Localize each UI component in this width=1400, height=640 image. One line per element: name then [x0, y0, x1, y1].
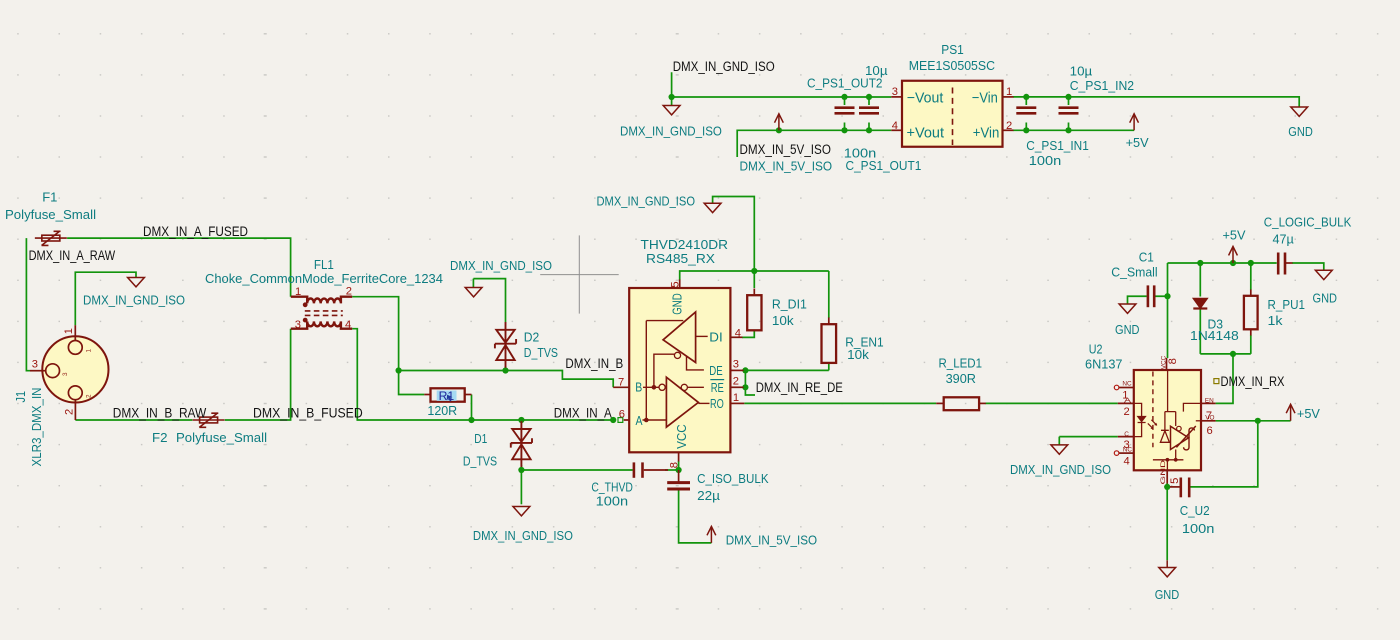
svg-text:3: 3: [892, 86, 898, 98]
svg-text:GND: GND: [1313, 290, 1338, 305]
IC U2 6N137 body: [1134, 370, 1201, 470]
svg-text:Polyfuse_Small: Polyfuse_Small: [176, 430, 267, 445]
svg-text:R_DI1: R_DI1: [772, 296, 807, 311]
RO line: [698, 402, 709, 404]
ground DMX_IN_GND_ISO (near D2): [465, 288, 482, 297]
power symbol +5V (U2 VO): [1286, 404, 1295, 421]
polyfuse F2: [193, 413, 225, 427]
diode D1 D_TVS: [511, 421, 532, 467]
svg-text:NC: NC: [1123, 447, 1133, 454]
capacitor C_U2: [1181, 478, 1189, 498]
svg-text:DMX_IN_GND_ISO: DMX_IN_GND_ISO: [673, 59, 775, 74]
LED input diode: [1134, 403, 1142, 416]
B input line and bubble: [643, 386, 659, 388]
svg-text:C_Small: C_Small: [1111, 264, 1157, 279]
wire D1 junction down to GND_ISO: [520, 470, 522, 504]
svg-text:GND: GND: [1115, 322, 1140, 337]
svg-text:NC: NC: [1122, 380, 1132, 387]
THVD pin stubs: [613, 280, 744, 462]
EN internal: [1183, 403, 1201, 411]
svg-text:4: 4: [1124, 455, 1130, 467]
svg-text:XLR3_DMX_IN: XLR3_DMX_IN: [29, 388, 44, 467]
svg-text:DI: DI: [709, 329, 722, 344]
svg-text:DMX_IN_RE_DE: DMX_IN_RE_DE: [756, 380, 843, 395]
wire D3 vertical: [1199, 263, 1201, 354]
ground DMX_IN_GND_ISO (PS1 left junction): [663, 106, 680, 115]
svg-text:J1: J1: [13, 391, 28, 403]
ground DMX_IN_GND_ISO (below D1): [513, 507, 530, 516]
dangling label square DMX_IN_RX: [1214, 379, 1219, 384]
resistor R_EN1: [828, 318, 830, 325]
svg-text:1: 1: [295, 286, 301, 298]
wire junction to R1 left: [399, 371, 425, 395]
power symbol DMX_IN_5V_ISO (bottom): [707, 526, 716, 543]
svg-text:DMX_IN_B: DMX_IN_B: [565, 356, 623, 371]
wire C_U2 left junction: [1166, 483, 1168, 487]
svg-text:DMX_IN_B_FUSED: DMX_IN_B_FUSED: [253, 405, 363, 420]
IC U1 THVD2410DR body: [629, 288, 730, 452]
svg-text:DMX_IN_A: DMX_IN_A: [554, 406, 612, 421]
svg-text:2: 2: [64, 409, 76, 415]
internal VCC rail: [1165, 370, 1176, 426]
svg-text:6: 6: [1207, 425, 1213, 437]
wire PS1 bottom left rail: [737, 130, 891, 157]
svg-text:6N137: 6N137: [1085, 357, 1123, 372]
svg-text:1N4148: 1N4148: [1190, 328, 1239, 343]
A input line: [643, 419, 667, 421]
svg-text:1: 1: [86, 349, 93, 353]
svg-text:22µ: 22µ: [697, 488, 720, 503]
output buffer triangle: [1171, 426, 1189, 449]
svg-text:3: 3: [32, 359, 38, 371]
capacitor C_PS1_IN1 / C_PS1_IN2: [1016, 108, 1036, 114]
wire DMX_IN_B_FUSED F2 to choke pin3: [225, 329, 291, 420]
power symbol +5V (PS1 right): [1130, 114, 1139, 131]
svg-text:2: 2: [1006, 120, 1012, 132]
wire PS1 right top rail to GND: [1013, 97, 1299, 107]
wire D3 R_PU1 bottom rail: [1200, 353, 1251, 355]
svg-text:8: 8: [668, 462, 680, 468]
svg-text:C_PS1_OUT2: C_PS1_OUT2: [807, 76, 883, 91]
wire DMX_IN_A_FUSED F1 to choke pin1: [67, 238, 291, 297]
svg-text:Choke_CommonMode_FerriteCore_1: Choke_CommonMode_FerriteCore_1234: [205, 271, 443, 286]
bottom internal rail: [1153, 450, 1184, 471]
ground DMX_IN_GND_ISO (top center): [704, 203, 721, 212]
wire DMX_IN_B horizontal to THVD pin7: [399, 371, 614, 388]
svg-text:390R: 390R: [946, 371, 976, 386]
svg-text:4: 4: [892, 120, 898, 132]
ground GND (C_LOGIC_BULK): [1315, 270, 1332, 279]
capacitor C_ISO_BULK: [667, 470, 690, 489]
svg-text:47µ: 47µ: [1273, 232, 1295, 247]
wire THVD pin5 to GND net: [680, 271, 829, 280]
resistor R_DI1: [753, 289, 755, 296]
driver output lines: [646, 321, 683, 420]
wire VO junction down to C_U2: [1191, 421, 1258, 487]
svg-text:RO: RO: [710, 396, 724, 411]
svg-text:R_LED1: R_LED1: [939, 356, 983, 371]
svg-text:+Vin: +Vin: [973, 126, 1000, 142]
svg-text:C_PS1_IN2: C_PS1_IN2: [1070, 78, 1134, 93]
wire GND arrow top center: [713, 197, 755, 272]
wire U2 pin3 to GND_ISO: [1059, 437, 1118, 445]
svg-text:+5V: +5V: [1223, 227, 1246, 242]
wire PS1 right bottom rail to +5V: [1013, 129, 1134, 131]
DI line: [696, 335, 708, 337]
driver triangle: [663, 312, 696, 363]
ground DMX_IN_GND_ISO (U2 pin3): [1051, 445, 1068, 454]
DE line: [687, 356, 704, 370]
svg-text:R1: R1: [439, 389, 455, 403]
svg-text:3: 3: [62, 372, 69, 376]
svg-text:FL1: FL1: [314, 257, 334, 272]
capacitor C_LOGIC_BULK: [1278, 253, 1292, 275]
wire C_ISO_BULK bottom to 5V_ISO arrow: [679, 490, 712, 543]
svg-text:4: 4: [735, 327, 741, 339]
svg-text:+5V: +5V: [1126, 135, 1149, 150]
resistor R_LED1: [936, 402, 944, 404]
svg-text:−Vin: −Vin: [972, 91, 998, 107]
svg-text:U2: U2: [1089, 342, 1103, 357]
wire +5V top rail U2: [1168, 262, 1277, 264]
svg-text:7: 7: [618, 377, 624, 389]
polyfuse F1: [35, 231, 67, 245]
svg-text:A: A: [1124, 398, 1132, 405]
schmitt glyph: [1184, 428, 1195, 450]
svg-text:PS1: PS1: [941, 42, 964, 57]
svg-text:DE: DE: [709, 363, 723, 378]
svg-text:A: A: [636, 413, 643, 428]
wire PS1 top left rail: [672, 72, 892, 105]
svg-text:GND: GND: [670, 293, 685, 315]
no-connect circle pin1: [1114, 385, 1119, 390]
wire R_LED1 to U2 pin2: [985, 402, 1117, 404]
wire R_DI1 top: [753, 271, 755, 288]
diode D2 D_TVS: [495, 322, 516, 368]
wire RE_DE label stub: [745, 370, 755, 395]
svg-text:3: 3: [295, 319, 301, 331]
power symbol +5V (U2 rail): [1229, 247, 1238, 264]
svg-text:DMX_IN_B_RAW: DMX_IN_B_RAW: [113, 405, 207, 420]
svg-text:+Vout: +Vout: [907, 126, 945, 142]
wire R_PU1 vertical: [1250, 263, 1252, 354]
svg-text:DMX_IN_GND_ISO: DMX_IN_GND_ISO: [473, 528, 573, 543]
wire U2 pin5 to GND: [1166, 487, 1168, 560]
svg-text:DMX_IN_A_RAW: DMX_IN_A_RAW: [29, 248, 116, 263]
svg-text:1: 1: [1006, 86, 1012, 98]
wire R_EN1 top: [828, 271, 830, 318]
svg-text:10k: 10k: [847, 347, 869, 362]
svg-text:6: 6: [619, 409, 625, 421]
svg-text:DMX_IN_GND_ISO: DMX_IN_GND_ISO: [620, 124, 722, 139]
svg-text:4: 4: [345, 319, 351, 331]
svg-text:F1: F1: [42, 189, 57, 204]
svg-text:F2: F2: [152, 430, 168, 445]
no-connect circle pin4: [1114, 451, 1119, 456]
svg-text:C_U2: C_U2: [1180, 503, 1210, 518]
svg-text:C_LOGIC_BULK: C_LOGIC_BULK: [1264, 214, 1352, 229]
connector J1 XLR3_DMX_IN: [30, 325, 109, 420]
unconnected end square (pin A): [618, 418, 623, 423]
svg-text:C_PS1_OUT1: C_PS1_OUT1: [846, 158, 922, 173]
diode D3 1N4148: [1193, 299, 1207, 309]
svg-text:100n: 100n: [596, 494, 629, 509]
crosshair cursor: [540, 235, 619, 313]
U2 pin stubs: [1118, 358, 1216, 484]
wire C_THVD right to pin8 junction: [665, 469, 679, 471]
wire DMX_IN_A_RAW left vertical F1 to XLR pin3: [26, 238, 30, 371]
svg-text:D2: D2: [524, 330, 540, 345]
open collector diagonal: [1176, 426, 1195, 447]
wire D1 stubs: [520, 420, 522, 470]
svg-text:DMX_IN_5V_ISO: DMX_IN_5V_ISO: [740, 142, 831, 157]
svg-text:C1: C1: [1139, 249, 1154, 264]
svg-text:10k: 10k: [772, 313, 794, 328]
svg-text:5: 5: [670, 281, 682, 287]
svg-text:GND: GND: [1288, 124, 1313, 139]
svg-text:5: 5: [1169, 478, 1181, 484]
svg-text:R_PU1: R_PU1: [1268, 297, 1306, 312]
svg-text:D1: D1: [474, 431, 487, 446]
wire R1 right down to A row: [471, 395, 473, 421]
wire C_LOGIC_BULK right to GND: [1292, 263, 1324, 270]
capacitor C1 C_Small: [1148, 285, 1154, 307]
wire DMX_IN_B_RAW XLR pin2 to F2: [75, 419, 192, 421]
VO internal: [1196, 420, 1201, 422]
svg-text:1: 1: [733, 392, 739, 404]
RE bubble and line: [681, 384, 687, 390]
IC PS1 MEE1S0505SC body: [902, 81, 1003, 147]
wire C1 rail down to U2 pin8: [1167, 263, 1169, 358]
wire RO to R_LED1: [744, 402, 936, 404]
wire GND_ISO corner to D2 top: [473, 279, 505, 322]
svg-text:VCC: VCC: [674, 424, 689, 449]
svg-text:C_PS1_IN1: C_PS1_IN1: [1026, 138, 1089, 153]
choke FL1 common-mode: [291, 297, 352, 329]
wire D2 bottom to junction: [505, 366, 507, 371]
svg-text:DMX_IN_A_FUSED: DMX_IN_A_FUSED: [143, 224, 248, 239]
svg-text:RE: RE: [711, 380, 724, 395]
receiver triangle: [666, 377, 698, 427]
svg-text:100n: 100n: [1029, 153, 1062, 168]
svg-text:DMX_IN_GND_ISO: DMX_IN_GND_ISO: [1010, 462, 1111, 477]
svg-text:−Vout: −Vout: [907, 91, 944, 107]
wire C_PS1_IN cap stubs: [1026, 97, 1068, 130]
capacitor C_THVD: [634, 462, 643, 477]
svg-text:C_ISO_BULK: C_ISO_BULK: [697, 471, 769, 486]
svg-text:VCC: VCC: [1161, 355, 1168, 369]
ground GND (PS1 right): [1291, 107, 1308, 116]
ground GND (U2 bottom): [1159, 568, 1176, 577]
svg-text:D_TVS: D_TVS: [524, 345, 558, 360]
svg-text:DMX_IN_RX: DMX_IN_RX: [1221, 374, 1285, 389]
wire choke pin2 to DMX_IN_B node: [352, 297, 398, 371]
svg-text:VO: VO: [1205, 415, 1214, 422]
svg-text:RS485_RX: RS485_RX: [646, 251, 715, 266]
svg-text:D_TVS: D_TVS: [463, 454, 497, 469]
photodiode: [1160, 412, 1169, 443]
wire C_PS1_OUT2 cap stubs: [845, 97, 870, 130]
wire U2 pin6 VO to +5V: [1216, 420, 1291, 422]
wire R_DI1 bottom to DI pin4: [742, 330, 754, 337]
svg-text:MEE1S0505SC: MEE1S0505SC: [909, 58, 996, 73]
capacitor C_PS1_OUT2 pair: [835, 108, 855, 114]
svg-text:3: 3: [733, 358, 739, 370]
svg-text:GND: GND: [1155, 587, 1180, 602]
wire choke pin4 down to DMX_IN_A row: [352, 329, 613, 420]
svg-text:Polyfuse_Small: Polyfuse_Small: [5, 207, 96, 222]
wire U2 pin7 EN up to D3 rail: [1216, 354, 1233, 404]
svg-text:DMX_IN_GND_ISO: DMX_IN_GND_ISO: [450, 258, 552, 273]
svg-text:+5V: +5V: [1297, 406, 1320, 421]
svg-text:8: 8: [1167, 358, 1179, 364]
svg-text:B: B: [635, 380, 642, 395]
svg-text:DMX_IN_GND_ISO: DMX_IN_GND_ISO: [83, 292, 185, 307]
wire C1 plates to rail: [1128, 296, 1168, 304]
svg-text:GND: GND: [1160, 459, 1167, 484]
power symbol DMX_IN_5V_ISO (PS1 left): [775, 114, 784, 131]
svg-text:C: C: [1124, 431, 1129, 438]
svg-text:DMX_IN_5V_ISO: DMX_IN_5V_ISO: [740, 159, 833, 174]
svg-text:EN: EN: [1205, 398, 1214, 405]
svg-text:C_THVD: C_THVD: [591, 479, 633, 494]
svg-text:2: 2: [346, 285, 352, 297]
svg-text:2: 2: [1124, 406, 1130, 418]
driver inverting bubble: [674, 352, 680, 358]
wire DE to R_EN1 bottom: [745, 364, 828, 371]
wire XLR pin1 to GND_ISO: [75, 272, 136, 325]
wire D1 junction to C_THVD: [521, 469, 632, 471]
svg-text:DMX_IN_5V_ISO: DMX_IN_5V_ISO: [726, 532, 817, 547]
resistor R_PU1: [1250, 290, 1252, 296]
ground GND (C1): [1119, 304, 1136, 313]
svg-text:120R: 120R: [427, 403, 457, 418]
svg-text:100n: 100n: [1182, 521, 1215, 536]
ground DMX_IN_GND_ISO (XLR pin1): [128, 278, 145, 287]
svg-text:2: 2: [733, 375, 739, 387]
svg-text:DMX_IN_GND_ISO: DMX_IN_GND_ISO: [597, 194, 696, 209]
light arrows: [1148, 420, 1157, 429]
svg-text:1: 1: [63, 328, 75, 334]
svg-text:1k: 1k: [1268, 313, 1283, 328]
svg-text:2: 2: [86, 394, 93, 398]
wire pin8 stub lower: [678, 461, 680, 470]
resistor R1 120R: [424, 388, 471, 403]
svg-text:10µ: 10µ: [1070, 64, 1093, 79]
